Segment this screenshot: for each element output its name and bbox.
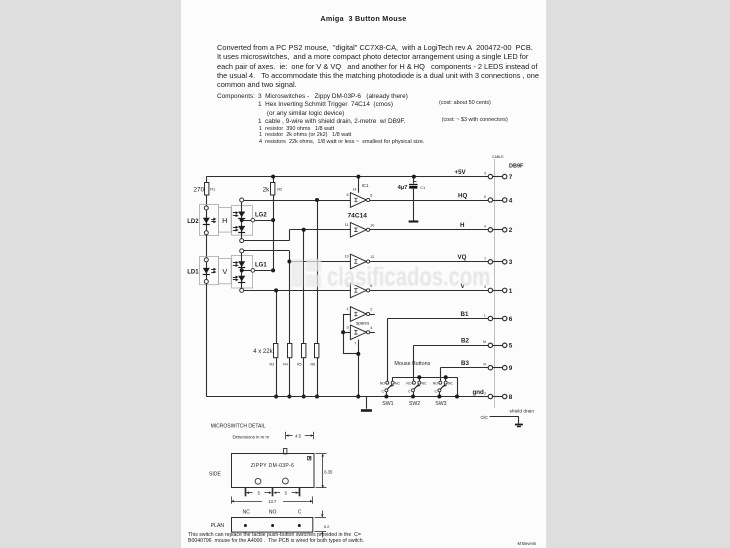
svg-text:6: 6 (484, 195, 486, 199)
svg-text:12: 12 (370, 255, 374, 259)
svg-text:M: M (483, 340, 486, 344)
svg-text:C: C (381, 390, 384, 394)
svg-text:R1: R1 (210, 187, 215, 192)
svg-text:4.5: 4.5 (295, 433, 301, 438)
svg-text:C: C (408, 390, 411, 394)
svg-text:Dimensions in m m: Dimensions in m m (233, 435, 270, 440)
svg-text:8: 8 (509, 394, 513, 401)
svg-text:ZIPPY DM-03P-6: ZIPPY DM-03P-6 (251, 463, 294, 469)
svg-text:4 x 22k: 4 x 22k (253, 349, 273, 355)
svg-text:H: H (222, 216, 227, 225)
svg-text:B1: B1 (461, 311, 469, 318)
svg-text:PLAN: PLAN (211, 523, 225, 529)
svg-text:11: 11 (345, 223, 349, 227)
svg-text:gnd: gnd (473, 389, 485, 396)
svg-text:14: 14 (353, 187, 357, 191)
svg-text:3: 3 (484, 171, 486, 175)
svg-text:270: 270 (193, 186, 204, 193)
svg-text:5: 5 (285, 490, 288, 495)
svg-text:74C14: 74C14 (348, 212, 368, 219)
svg-text:R2: R2 (277, 187, 282, 192)
svg-text:13: 13 (344, 255, 348, 259)
svg-text:B2: B2 (461, 338, 469, 345)
svg-text:O/C: O/C (481, 415, 488, 420)
svg-text:NO: NO (269, 509, 277, 515)
svg-text:NO: NO (380, 382, 386, 386)
svg-text:shield drain: shield drain (510, 408, 535, 414)
svg-text:VQ: VQ (458, 254, 467, 261)
svg-text:10: 10 (370, 223, 374, 227)
svg-text:+5V: +5V (455, 169, 467, 176)
svg-text:5: 5 (346, 193, 348, 197)
svg-text:C1: C1 (420, 186, 425, 190)
svg-text:IC1: IC1 (362, 183, 369, 188)
svg-text:R6: R6 (311, 363, 316, 367)
svg-text:NC: NC (448, 382, 454, 386)
svg-text:13.7: 13.7 (268, 499, 277, 504)
svg-text:spares: spares (356, 320, 370, 325)
svg-text:LG1: LG1 (255, 263, 267, 269)
svg-text:C: C (298, 509, 302, 515)
svg-text:NC: NC (422, 382, 428, 386)
svg-text:LG2: LG2 (255, 212, 267, 218)
svg-text:R: R (484, 363, 487, 367)
svg-text:R5: R5 (297, 363, 302, 367)
svg-text:7: 7 (354, 342, 356, 346)
svg-text:2k: 2k (263, 186, 271, 193)
svg-text:V: V (222, 267, 227, 276)
svg-text:6.35: 6.35 (324, 470, 333, 475)
svg-text:2: 2 (484, 391, 486, 395)
svg-text:3: 3 (346, 325, 348, 329)
svg-text:DB9F: DB9F (509, 164, 524, 170)
svg-text:C: C (434, 390, 437, 394)
svg-text:LD2: LD2 (187, 219, 199, 225)
svg-text:R3: R3 (270, 363, 275, 367)
svg-text:1: 1 (509, 288, 513, 295)
svg-text:LD1: LD1 (187, 270, 199, 276)
svg-text:NO: NO (406, 382, 412, 386)
svg-text:MICROSWITCH DETAIL: MICROSWITCH DETAIL (211, 423, 266, 429)
svg-text:HQ: HQ (458, 192, 467, 199)
svg-text:3: 3 (509, 259, 513, 266)
svg-text:4µ7: 4µ7 (398, 185, 408, 191)
svg-text:1: 1 (346, 307, 348, 311)
svg-text:B3: B3 (461, 360, 469, 367)
svg-text:5: 5 (509, 343, 513, 350)
svg-text:9: 9 (509, 365, 513, 372)
svg-text:2: 2 (509, 227, 513, 234)
svg-text:CABLE: CABLE (492, 155, 504, 159)
svg-text:2: 2 (370, 308, 372, 312)
svg-text:7: 7 (509, 174, 513, 181)
svg-text:4: 4 (370, 326, 372, 330)
svg-text:SW3: SW3 (435, 401, 446, 407)
svg-text:NO: NO (433, 382, 439, 386)
svg-text:NC: NC (243, 509, 251, 515)
svg-text:Mouse Buttons: Mouse Buttons (394, 361, 430, 367)
svg-text:H: H (460, 222, 465, 229)
svg-text:NC: NC (395, 382, 401, 386)
svg-text:4: 4 (509, 197, 513, 204)
svg-text:6: 6 (509, 316, 513, 323)
svg-text:5: 5 (258, 490, 261, 495)
svg-text:SIDE: SIDE (209, 471, 222, 477)
svg-text:R4: R4 (283, 363, 288, 367)
svg-text:L: L (484, 313, 486, 317)
svg-text:6: 6 (370, 194, 372, 198)
svg-text:1: 1 (484, 257, 486, 261)
svg-text:5.2: 5.2 (324, 524, 330, 529)
svg-text:4: 4 (484, 225, 486, 229)
svg-text:SW1: SW1 (382, 401, 393, 407)
svg-text:SW2: SW2 (409, 401, 420, 407)
svg-text:clasificados.com: clasificados.com (327, 262, 490, 291)
